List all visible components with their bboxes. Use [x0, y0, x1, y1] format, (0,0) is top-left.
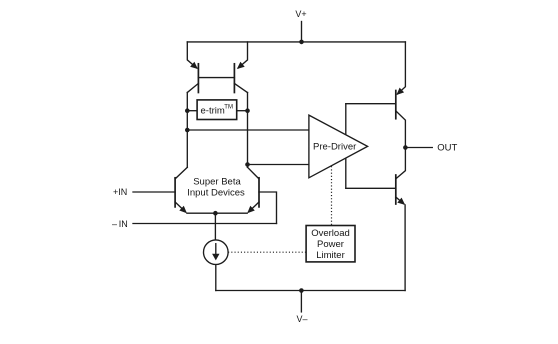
node V- label — [296, 314, 307, 324]
wire +IN lead — [133, 191, 175, 193]
wire pre-driver input 1 — [187, 129, 309, 131]
node +IN label — [113, 187, 127, 197]
wire bottom rail — [216, 290, 405, 292]
junction V+ on top rail — [299, 40, 304, 45]
wire e-trim right link — [237, 110, 248, 112]
wire V+ stub — [301, 22, 303, 42]
junction input 1 tap — [185, 128, 190, 133]
wire pre-driver input 2 — [248, 164, 309, 166]
transistor Q2 collector — [234, 83, 247, 92]
wire right collector rail — [247, 93, 249, 168]
junction e-trim left — [185, 108, 190, 113]
transistor Q5 base bar — [395, 91, 397, 119]
svg-text:+IN: +IN — [113, 187, 127, 197]
svg-text:Pre-Driver: Pre-Driver — [313, 142, 356, 153]
junction common emitter node — [213, 211, 218, 216]
dotted control line: pre-driver to overload limiter — [331, 166, 333, 225]
svg-text:Super Beta: Super Beta — [193, 177, 241, 188]
transistor Q4 collector — [248, 167, 260, 179]
node OUT label — [437, 143, 457, 154]
wire driver to top output base — [346, 103, 396, 105]
wire driver output vertical (behind triangle) — [345, 104, 347, 189]
transistor Q5 emitter arrow — [396, 88, 404, 95]
svg-text:Power: Power — [317, 239, 344, 250]
svg-text:OUT: OUT — [437, 143, 457, 154]
svg-text:– IN: – IN — [112, 219, 128, 229]
transistor Q2 base bar — [233, 64, 235, 93]
transistor Q2 (PNP mirror right): emitter wire — [238, 42, 247, 68]
svg-text:V–: V– — [296, 314, 307, 324]
wire current source to bottom rail — [215, 265, 217, 291]
label Super Beta Input Devices — [187, 177, 245, 199]
wire Q3 emitter to common node — [187, 212, 216, 214]
svg-text:TM: TM — [224, 105, 233, 111]
wire V- stub — [300, 291, 302, 312]
wire Q6 emitter to bottom rail — [404, 205, 406, 291]
junction V- on bottom rail — [299, 288, 304, 293]
transistor Q5 (PNP output top): emitter wire — [398, 42, 406, 94]
transistor Q4 (super beta right): base bar — [258, 178, 260, 207]
wire Q1-Q2 base connect — [198, 77, 234, 79]
transistor Q4 emitter — [249, 202, 259, 212]
junction input 2 tap — [245, 162, 250, 167]
transistor Q3 emitter — [175, 202, 185, 212]
wire Q4 base to -IN — [259, 192, 277, 224]
transistor Q1 collector — [187, 83, 198, 92]
node -IN label — [112, 219, 128, 229]
node V+ label — [295, 9, 306, 19]
wire left collector rail — [186, 93, 188, 168]
transistor Q3 collector — [175, 167, 187, 179]
wire OUT lead — [405, 147, 432, 149]
wire e-trim left link — [187, 110, 197, 112]
transistor Q6 emitter — [396, 197, 404, 204]
svg-text:Input Devices: Input Devices — [187, 187, 245, 198]
transistor Q3 (super beta left): base bar — [174, 178, 176, 207]
overload power limiter block — [306, 226, 355, 262]
svg-text:Limiter: Limiter — [316, 250, 345, 261]
e-trim block — [197, 100, 237, 120]
transistor Q2 emitter arrow — [237, 62, 245, 69]
wire Q4 emitter to common node — [215, 212, 247, 214]
dotted control line: current source to overload limiter — [228, 251, 306, 253]
op-amp U1 Pre-Driver triangle — [309, 115, 368, 178]
junction e-trim right — [245, 108, 250, 113]
current source I1 arrow head — [212, 254, 219, 261]
transistor Q6 base bar — [395, 175, 397, 204]
transistor Q6 (NPN output bottom): collector wire — [396, 148, 405, 179]
transistor Q5 collector — [396, 111, 406, 148]
svg-text:V+: V+ — [295, 9, 306, 19]
transistor Q6 emitter arrow — [397, 198, 405, 205]
wire top rail — [187, 41, 405, 43]
wire -IN lead — [133, 223, 277, 225]
transistor Q1 emitter arrow — [190, 62, 198, 69]
current source I1 circle — [204, 240, 229, 265]
transistor Q1 (PNP mirror left): emitter wire — [187, 42, 196, 68]
svg-text:e-trim: e-trim — [201, 106, 225, 117]
wire driver to bottom output base — [346, 187, 396, 189]
transistor Q1 base bar — [197, 64, 199, 93]
current source I1 arrow shaft — [215, 244, 217, 256]
junction OUT node — [403, 145, 408, 150]
transistor Q3 emitter arrow — [179, 206, 187, 214]
wire common node to current source — [214, 213, 216, 240]
transistor Q4 emitter arrow — [247, 206, 255, 214]
svg-text:Overload: Overload — [311, 228, 350, 239]
